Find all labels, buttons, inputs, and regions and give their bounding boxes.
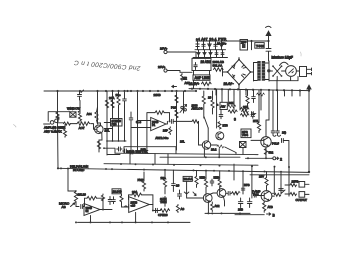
capacitor C8 [252,90,256,103]
node B4 dot [78,111,80,113]
potentiometer P4 [184,181,189,194]
resistor R31 vertical [218,171,221,187]
resistor R36 vertical [263,203,266,213]
wire R15 to base [199,121,203,145]
terminal B arrow [267,213,271,216]
svg-text:OUTPUT: OUTPUT [296,198,308,202]
capacitor C2 [123,91,127,107]
wire grid box drop [130,153,168,164]
node rail2 left end [57,167,59,169]
diode D4 [197,50,200,58]
component box B6 [220,102,227,109]
component box B5 [111,119,123,127]
wire column x176 [176,91,178,150]
capacitor C14 inside box [194,63,197,70]
resistor R16 vertical [202,91,208,128]
wire U2 feedback loop [85,198,104,209]
node bottom rail mid dots [207,212,241,214]
svg-text:26X8: 26X8 [154,93,161,97]
arrow A4 [193,192,196,196]
wire Q7 output [272,195,274,197]
wire U2 bottom to rail [90,216,92,223]
wire vertical from top rail [251,41,253,50]
wire U1 output [166,121,167,124]
svg-text:26.4V~: 26.4V~ [224,82,234,86]
svg-text:26-26+: 26-26+ [217,42,227,46]
wire U1 input feeds [131,121,148,128]
svg-text:26.2: 26.2 [211,148,217,152]
capacitor C32 [251,113,255,119]
wire T2 to stub [167,71,180,73]
transistor Q4 [261,137,271,147]
wire rail right C [250,174,309,176]
resistor R50 vertical [169,127,172,135]
svg-text:26V+: 26V+ [158,65,166,69]
capacitor C26 [226,192,232,196]
wire lamp top link [276,80,278,90]
capacitor C30 [254,194,259,197]
capacitor C10 [266,41,271,61]
resistor R33 [232,192,239,195]
wire supply rail 2 [195,49,226,51]
wire drop x281 [280,172,282,194]
resistor R30 vertical [204,171,207,188]
potentiometer P3 gain trim [162,196,166,206]
resistor R12 [202,82,212,86]
node U3 out [152,210,154,212]
node secondary blob [267,69,270,72]
resistor R47 horizontal [228,110,237,113]
svg-text:26+: 26+ [116,93,121,97]
resistor R20b horizontal [241,114,249,117]
wire Q3 collector [207,128,209,142]
node bottom rail dots [75,221,169,223]
resistor R40 vertical [181,74,184,81]
svg-text:P1: P1 [152,123,156,127]
resistor R2 [64,122,71,125]
wire U3 output [149,205,160,211]
svg-text:P24: P24 [112,122,117,126]
wire stub left [180,71,192,73]
resistor R17 vertical [211,91,214,114]
svg-text:A84: A84 [87,112,92,116]
svg-text:3: 3 [234,118,236,122]
node U1 out [169,120,171,122]
wire link y141 [107,140,126,142]
wire rail segment B [160,156,240,158]
node rail dots [191,88,301,92]
wire cap C31 link [280,184,282,194]
wire column feed A [112,91,114,118]
diode D3 [220,41,223,50]
resistor R45 horizontal [217,145,224,148]
connector J2 plug [300,67,312,77]
wire main supply rail bottom [189,89,309,91]
resistor R39 h [290,193,297,196]
resistor R35 vertical [265,172,268,192]
wire T1 to box [167,52,196,58]
wire rail link x155 [154,154,156,165]
component box B13 gps [241,129,251,138]
wire column x107 [106,91,108,155]
capacitor C15 [271,131,276,136]
capacitor C16 [276,131,281,136]
wire drop x234 [233,89,235,110]
wire bottom rail left [78,221,191,223]
wire Q6 emitter [223,197,224,206]
svg-text:26.8AA: 26.8AA [184,177,193,181]
svg-text:CPE26: CPE26 [158,213,168,217]
component box B14 [240,142,247,148]
capacitor C25 [210,179,214,186]
wire drop x269 long [268,90,270,120]
resistor R37 [274,193,281,196]
wire U3 feedback loop [129,195,153,205]
wire column feed B [137,91,139,128]
wire drop x222 [221,89,223,102]
component box B3 line amp [193,75,210,80]
wire bottom rail mid [205,212,250,214]
svg-text:26V: 26V [259,175,264,179]
wire diagonal to box [225,147,236,153]
wire drop x289 upper [288,167,290,183]
svg-text:ACT: ACT [79,126,85,130]
svg-text:ATB: ATB [268,205,273,209]
svg-text:NT6: NT6 [223,124,229,128]
svg-text:interface 1/2μF: interface 1/2μF [272,56,293,60]
svg-text:ANY 6.3MAX: ANY 6.3MAX [44,130,62,134]
svg-text:7004: 7004 [242,133,248,137]
wire Q3 out right [211,144,217,146]
svg-text:TRIM: TRIM [160,200,167,204]
op-amp U1 [148,118,167,131]
resistor R38 h [290,184,297,187]
wire drop x68 [67,169,69,192]
svg-text:26 AB2: 26 AB2 [201,60,212,64]
svg-text:26: 26 [176,184,180,188]
svg-text:26PB: 26PB [292,179,299,183]
wire Q3 emitter [203,149,205,158]
svg-text:26.4V+: 26.4V+ [189,82,199,86]
terminal T1 circle [164,50,167,53]
component box B1 [240,40,248,51]
wire drop x234 lower [233,164,235,180]
resistor R27 vertical [163,170,166,194]
wire drop x219 [218,149,220,158]
power flag +26V [266,31,271,41]
wire U3 bottom [135,212,137,222]
wire rail mid2 [58,168,309,172]
transistor Q8 [216,132,224,140]
svg-text:26L: 26L [180,140,185,144]
resistor R44 vertical [264,149,267,155]
capacitor C28 [247,198,252,208]
resistor R1 on feed [56,112,59,120]
node left bus dots [56,90,186,92]
wire Q5 collector [205,188,207,195]
capacitor C5 [123,149,128,153]
resistor R9 feedback [155,111,164,115]
resistor R4 vertical [79,101,82,123]
wire left bus [44,90,195,92]
wire U1 loop down [146,128,148,151]
wire primary bottom lead [254,80,258,82]
svg-text:26L26: 26L26 [78,193,87,197]
resistor R19 [257,93,265,96]
svg-text:AB/: AB/ [221,105,226,109]
resistor R7 vertical [111,100,114,108]
svg-text:WINDOW: WINDOW [67,107,80,111]
node box lead dot [103,147,105,149]
resistor R51 vertical [64,125,67,138]
svg-text:861: 861 [229,101,234,105]
resistor R41 vertical [105,100,108,108]
node U2 out [102,209,104,211]
diode D6 [209,50,212,58]
resistor R18 vertical [246,90,249,106]
wire Q4 collector up [266,120,269,137]
svg-text:2nd C900/C200 t n C: 2nd C900/C200 t n C [74,59,142,72]
capacitor C7 [171,119,173,123]
capacitor C17 [282,139,284,143]
op-amp U2 [84,204,100,216]
capacitor C3 [129,112,133,126]
svg-text:NZB: NZB [214,176,220,180]
wire feedback loop [147,113,170,128]
node rail dots mid [60,163,290,173]
wire bottom rail q4 [246,157,272,159]
capacitor C34 [219,110,223,119]
wire lamp bottom loop [269,76,298,80]
resistor R11 [214,68,224,72]
resistor R43 vertical [257,110,260,133]
wire rail long A [115,153,258,154]
component box B10 [183,176,192,181]
svg-text:P26: P26 [171,106,177,110]
wire mic to R2 [58,122,77,125]
svg-text:A82: A82 [215,204,220,208]
wire drop x228 [227,89,229,105]
resistor R48 horizontal [242,110,249,113]
wire U3 input [122,204,129,207]
lamp X symbol [272,65,285,77]
wire drop x277.5 [277,90,279,131]
meter M1 circle [286,66,300,77]
bridge rectifier BR1 [228,60,251,85]
svg-text:26): 26) [282,131,286,135]
power flag arrow right rail [307,85,311,90]
svg-text:ANTLOG+: ANTLOG+ [155,136,169,140]
capacitor C23 [172,184,176,192]
wire Q1 collector row [104,123,112,129]
component box B9 [112,189,121,194]
wire B14 to rail [236,148,243,155]
wire rail mid1 [104,164,258,166]
arrow marker on bus [172,85,177,87]
wire drop x243 [242,171,244,190]
resistor R15 [192,120,199,123]
trim pot P1 [180,91,187,113]
svg-text:26: 26 [208,96,212,100]
wire rail stubs [216,89,300,96]
wire supply rail 3 [193,57,228,59]
capacitor C24 [178,190,182,199]
wire Q7 emitter [263,201,265,203]
speck left margin [14,125,17,128]
microphone jack J1 [44,112,70,125]
wire lamp top hop [280,62,289,65]
svg-text:B: B [273,213,276,217]
capacitor C4 [117,147,122,151]
resistor R10 [221,50,224,58]
wire output line [173,120,192,122]
capacitor C18 [76,205,84,209]
node bridge side dots [227,71,229,73]
transistor Q1 [91,91,104,134]
svg-text:A8: A8 [181,207,185,211]
svg-text:26A: 26A [109,96,114,100]
wire bridge right lead [251,63,254,82]
wire drop x273 [272,90,274,131]
svg-text:NZB: NZB [200,176,206,180]
resistor R26 [160,209,170,213]
node q4 rail dots [247,157,249,159]
capacitor C19 [108,197,112,205]
label antenna smudge [266,26,272,27]
resistor R32 vertical [211,202,214,212]
capacitor C31 [279,189,283,191]
wire Q5 to Q6 base [209,193,217,195]
transistor Q3 [202,141,210,149]
wire box left lead [104,148,115,153]
capacitor C33 [252,112,256,116]
wire primary top lead [254,62,258,64]
wire column extensions [113,107,138,151]
wire Q5 emitter [207,202,209,214]
capacitor C27 [238,198,243,208]
svg-text:26B: 26B [238,208,243,212]
svg-text:T-540: T-540 [256,44,264,48]
svg-text:502: 502 [269,151,274,155]
wire drop x251.9 lower [251,166,253,198]
capacitor C29 [241,188,244,194]
wire Q4 emitter chain [265,147,267,158]
capacitor C20 [112,197,116,204]
wire bridge top to rail [238,58,240,60]
svg-text:26.2AB: 26.2AB [113,189,122,193]
svg-text:a4 A07 26.1 PWR: a4 A07 26.1 PWR [196,37,227,41]
wire drop x274.3 lower [272,167,274,194]
svg-text:AMP LINE: AMP LINE [195,76,210,80]
transformer T1 [257,61,265,81]
transistor Q5 [203,194,212,203]
capacitor C1 [78,90,84,100]
svg-text:PSL#: PSL# [272,141,279,145]
resistor R3 [77,122,90,126]
potentiometer P2 [68,191,78,207]
wire link y154.5 [107,154,120,156]
transistor Q6 [217,189,226,198]
wire Q6 collector [219,186,221,190]
resistor R24 feedback U3 [132,193,142,197]
component box B8 grid [124,147,176,154]
component box B11 output1 [299,182,305,188]
wire box to Q4 base [251,139,264,141]
output terminal 2 [272,157,283,162]
svg-text:NT1: NT1 [253,119,259,123]
resistor R22 vertical [101,194,104,201]
svg-text:A07: A07 [185,81,190,85]
node top rail junction 1 [250,40,252,42]
wire cap to x289 drop [283,141,289,168]
node bridge bottom [238,84,240,86]
transistor Q7 [259,191,272,202]
wire R5 link [97,107,98,124]
svg-text:26V+: 26V+ [160,47,168,51]
capacitor C22 [156,208,158,212]
node bridge top [238,59,240,61]
node rail B dots [205,156,207,158]
wire to Q5 base [187,194,204,198]
svg-text:ANTLOG: ANTLOG [192,107,203,111]
diode D2 [208,41,211,50]
capacitor C21 [124,205,129,209]
resistor R49 vertical [218,122,221,129]
resistor R46 horizontal [228,105,236,108]
wire drop x289 [288,167,290,196]
diode D1 [196,41,199,50]
svg-text:BPB: BPB [244,183,250,187]
wire drop x259 [258,90,260,110]
terminal T2 circle [164,69,167,72]
wire mic feed to rail2 [57,121,60,169]
capacitor C6 [129,150,134,154]
wire secondary leads [265,61,272,81]
wire drop x216.6 [216,89,218,128]
resistor R20a horizontal [241,108,249,111]
wire box B3 verticals [194,71,210,89]
svg-text:AB: AB [62,205,66,209]
node rail end junction [308,89,310,91]
wire top supply rail [196,40,269,42]
wire boxes to vertical [281,184,309,196]
resistor R8 vertical [117,91,120,108]
diode D5 [203,50,206,58]
svg-text:ROUND: ROUND [73,168,85,172]
label T-540 boxed [255,43,264,49]
resistor R21 feedback U2 [87,196,97,200]
wire col x173 [172,170,174,184]
node bus dots center [105,90,197,92]
wire bridge bottom to rail [238,85,240,90]
wire bottom rail right [235,214,264,216]
component box B2 regulator [192,58,211,70]
svg-text:+26: +26 [131,204,136,208]
op-amp U3 [129,197,150,213]
component box B12 output2 [299,192,305,198]
capacitor C12 [214,41,217,50]
svg-text:861 AA: 861 AA [213,64,223,68]
capacitor C11 [202,41,205,50]
node lower right junction [308,171,310,173]
resistor R42 vertical [195,170,198,187]
svg-text:2: 2 [280,157,282,161]
capacitor C13 [215,50,218,58]
wire bridge left lead [223,68,228,76]
component box B4 window [70,112,76,117]
svg-text:GPS: GPS [242,130,248,134]
resistor R14 vertical [175,110,178,118]
